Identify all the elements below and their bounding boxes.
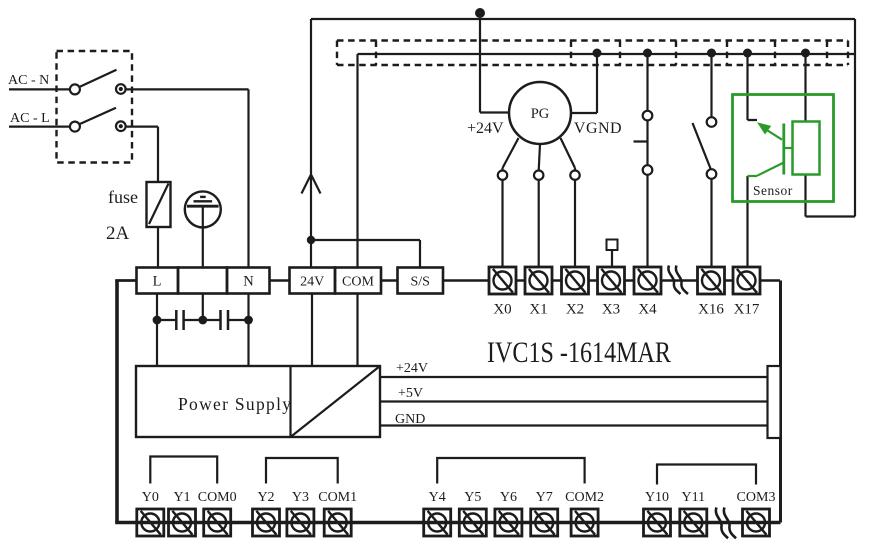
svg-text:fuse: fuse (108, 187, 138, 207)
svg-text:Y3: Y3 (292, 490, 309, 505)
svg-text:GND: GND (395, 412, 425, 427)
svg-text:2A: 2A (106, 223, 130, 244)
svg-text:N: N (243, 274, 254, 290)
svg-text:COM3: COM3 (737, 490, 776, 505)
svg-text:+24V: +24V (467, 120, 504, 137)
svg-text:S/S: S/S (410, 275, 429, 290)
svg-text:Y1: Y1 (173, 490, 190, 505)
svg-text:X4: X4 (638, 302, 657, 318)
svg-text:Y0: Y0 (142, 490, 159, 505)
svg-text:AC - L: AC - L (10, 111, 50, 126)
svg-text:X0: X0 (493, 302, 511, 318)
svg-text:24V: 24V (300, 275, 324, 290)
svg-text:IVC1S -1614MAR: IVC1S -1614MAR (487, 336, 671, 369)
svg-text:Y4: Y4 (429, 490, 446, 505)
svg-text:Y11: Y11 (682, 490, 706, 505)
svg-text:AC - N: AC - N (8, 73, 49, 88)
svg-text:COM2: COM2 (565, 490, 604, 505)
svg-text:X1: X1 (529, 302, 547, 318)
svg-text:PG: PG (531, 106, 550, 122)
svg-text:Y10: Y10 (645, 490, 669, 505)
svg-text:COM: COM (342, 275, 374, 290)
svg-text:Y5: Y5 (464, 490, 481, 505)
svg-text:+24V: +24V (396, 361, 428, 376)
svg-text:Y6: Y6 (500, 490, 517, 505)
svg-text:COM0: COM0 (198, 490, 237, 505)
svg-text:X16: X16 (698, 302, 724, 318)
svg-text:+5V: +5V (398, 386, 423, 401)
svg-text:X2: X2 (566, 302, 584, 318)
svg-text:COM1: COM1 (318, 490, 357, 505)
svg-text:L: L (153, 274, 162, 290)
svg-text:VGND: VGND (574, 120, 622, 137)
svg-text:Y7: Y7 (536, 490, 553, 505)
svg-text:X3: X3 (602, 302, 620, 318)
svg-text:Y2: Y2 (257, 490, 274, 505)
svg-text:Power Supply: Power Supply (178, 394, 292, 414)
svg-text:X17: X17 (734, 302, 760, 318)
svg-text:Sensor: Sensor (753, 183, 793, 198)
